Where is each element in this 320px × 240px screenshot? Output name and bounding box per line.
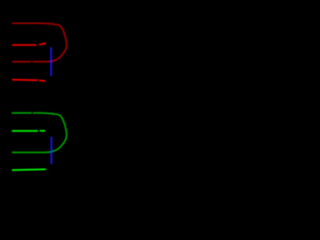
arrowhead on green cap [52, 112, 56, 115]
field line G4 (bright green) [13, 168, 46, 171]
faint arrowhead in L2 gap [37, 43, 40, 46]
field line L4 left segment (bright red) [13, 79, 37, 82]
field line L1 dark red loop: top line, right cap, into bottom line L3 [13, 23, 67, 61]
background [0, 0, 81, 202]
faint arrowhead in L3 gap (points left) [30, 60, 33, 63]
faint arrowhead in L4 gap [37, 79, 40, 82]
axis marker lower (blue dashed vertical) [50, 137, 52, 163]
field line G2 right segment (bright green) [40, 130, 44, 132]
field line L2 left segment (bright red) [13, 44, 36, 46]
field line G1 top left segment (green, before arrow gap) [12, 112, 31, 114]
field line L2 right segment (bright red) [40, 43, 45, 44]
field line L3 left segment (dark red, after arrow gap) [13, 61, 30, 63]
field line G1 green loop: top line after gap, right cap, into bottom line G3 [13, 113, 67, 152]
arrowhead on dark red cap [52, 23, 56, 26]
faint arrowhead in G1 gap [31, 112, 34, 115]
field line L4 right segment (bright red) [40, 79, 45, 81]
faint arrowhead in L2g gap [37, 130, 40, 133]
field line G2 left segment (bright green) [13, 130, 38, 132]
axis marker upper (blue dashed vertical) [50, 48, 52, 76]
